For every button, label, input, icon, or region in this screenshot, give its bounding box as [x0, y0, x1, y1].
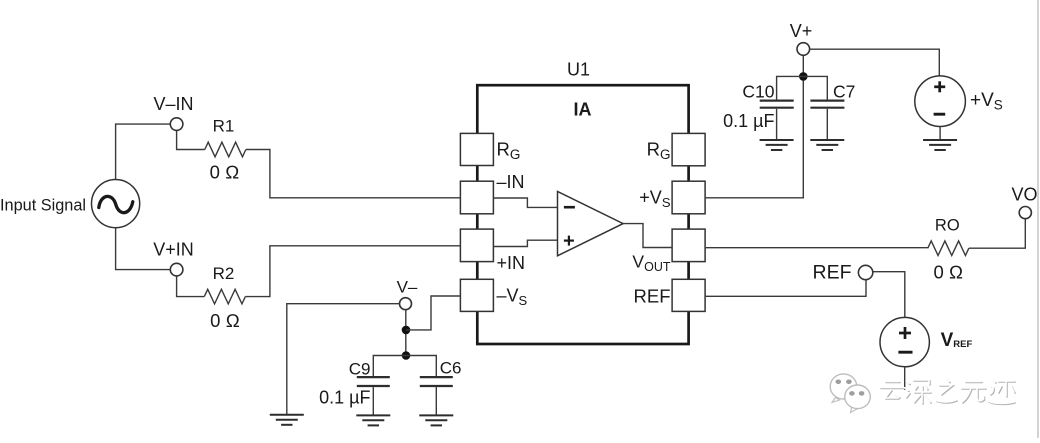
watermark wechat icon	[830, 374, 870, 413]
capacitor C7	[810, 82, 855, 141]
capacitor C9	[319, 360, 390, 416]
junction V- upper	[402, 326, 411, 335]
svg-text:R1: R1	[213, 117, 235, 136]
pin RG right	[647, 133, 705, 165]
svg-text:0 Ω: 0 Ω	[933, 262, 963, 283]
wire junction to C9 and C6	[373, 356, 436, 377]
svg-text:+IN: +IN	[497, 253, 526, 273]
capacitor C6	[420, 359, 462, 416]
node REF	[813, 262, 873, 284]
wire +IN pin to op-amp	[493, 240, 557, 246]
svg-text:U1: U1	[567, 60, 590, 80]
wire source bottom to V+IN node	[116, 228, 171, 270]
wire -IN pin to op-amp	[493, 198, 557, 207]
svg-text:VO: VO	[1011, 185, 1037, 205]
svg-text:0 Ω: 0 Ω	[210, 162, 240, 183]
ground C9	[356, 415, 390, 425]
svg-text:0.1 µF: 0.1 µF	[319, 387, 370, 407]
wire VOUT pin to RO	[705, 247, 928, 249]
wire REF pin to REF node	[705, 280, 866, 297]
ground C7	[810, 140, 844, 150]
resistor RO	[928, 217, 969, 283]
wire V-IN to R1	[177, 130, 205, 149]
svg-text:0 Ω: 0 Ω	[210, 310, 240, 331]
svg-text:C7: C7	[833, 82, 855, 102]
source Input Signal	[0, 180, 140, 228]
wire R1 to -IN pin	[246, 150, 461, 198]
node VO	[1011, 185, 1037, 219]
wire +VS source to ground	[939, 127, 941, 141]
svg-text:REF: REF	[634, 286, 671, 307]
wire +VS pin to V+ node	[705, 55, 803, 198]
wire junction to C10 and C7	[777, 76, 828, 99]
source +VS	[915, 76, 1003, 127]
pin +VS	[639, 181, 705, 214]
svg-text:C10: C10	[742, 82, 774, 102]
pin REF right	[634, 279, 706, 311]
right edge gray line	[1037, 0, 1039, 438]
svg-text:C6: C6	[440, 359, 462, 378]
pin -VS	[460, 279, 527, 311]
ground +VS source	[923, 140, 957, 150]
pin +IN	[460, 229, 525, 273]
svg-text:V+: V+	[790, 21, 813, 41]
wire V+IN to R2	[177, 276, 205, 297]
svg-text:Input Signal: Input Signal	[0, 197, 86, 215]
pin -IN	[460, 172, 524, 214]
ground C6	[419, 415, 453, 425]
node V-IN	[153, 94, 193, 130]
wire source top to V-IN node	[116, 124, 171, 179]
node V+	[790, 21, 813, 55]
svg-text:IA: IA	[574, 100, 592, 120]
svg-text:C9: C9	[349, 360, 371, 379]
wire REF node to VREF source	[873, 272, 905, 318]
watermark text	[880, 379, 1015, 405]
svg-text:RO: RO	[935, 217, 960, 235]
node V-	[397, 278, 418, 310]
node V+IN	[153, 240, 194, 276]
junction V+	[799, 72, 808, 81]
resistor R1	[205, 117, 246, 183]
wire RO to VO node	[969, 219, 1025, 249]
wire junction to -VS pin	[406, 296, 460, 330]
svg-text:V+IN: V+IN	[153, 240, 194, 260]
resistor R2	[204, 264, 245, 331]
pin VOUT	[632, 229, 705, 274]
wire below VREF source	[904, 367, 906, 390]
wire V- node down through junctions	[405, 310, 407, 356]
junction V- lower	[402, 351, 411, 360]
op-amp U1 triangle	[558, 191, 624, 255]
wire V- node to left ground	[287, 304, 400, 415]
ground left	[270, 415, 304, 425]
wire V+ to +VS source	[810, 49, 940, 76]
svg-text:0.1 µF: 0.1 µF	[723, 111, 774, 131]
source VREF	[880, 317, 972, 366]
svg-text:REF: REF	[813, 262, 852, 284]
wire R2 to +IN pin	[245, 246, 460, 297]
svg-text:R2: R2	[213, 264, 235, 283]
svg-text:V–: V–	[397, 278, 418, 297]
ground C10	[760, 140, 794, 150]
pin RG left	[460, 133, 520, 165]
svg-text:–IN: –IN	[497, 172, 525, 192]
IC U1 box	[477, 60, 688, 345]
wire op-amp output to VOUT pin	[623, 224, 672, 248]
svg-text:V–IN: V–IN	[153, 94, 193, 114]
capacitor C10	[723, 82, 794, 141]
